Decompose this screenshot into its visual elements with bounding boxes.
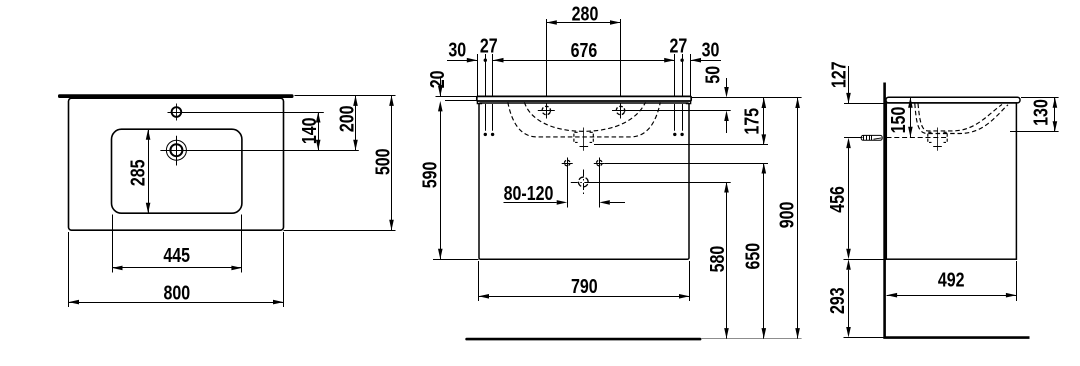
side view: wall and floor line — [885, 83, 1030, 338]
front view: slab edge extension lines (20 dim) — [436, 97, 477, 101]
svg-text:30: 30 — [448, 38, 466, 61]
front view: leader tap hole row to right — [629, 110, 731, 112]
svg-text:27: 27 — [670, 34, 688, 57]
side view: bowl bottom extension line right — [1010, 131, 1059, 133]
front view: hidden bowl inner curve (dashed) — [524, 102, 645, 131]
front view: extension lines below cabinet — [479, 261, 690, 301]
front view: slab right end lip — [686, 101, 691, 104]
top view: extension line from rail top right — [295, 95, 396, 97]
dimension 27 right — [670, 34, 688, 62]
top view: washbasin ceramic outline — [69, 98, 284, 230]
dimension 445 (bowl width) — [112, 243, 242, 270]
side view: washbasin slab profile — [886, 97, 1020, 103]
svg-text:130: 130 — [1029, 99, 1052, 126]
front view: mounting dot extension lines — [486, 104, 683, 131]
dimension 150 (slab to drain line) — [886, 97, 913, 137]
svg-text:500: 500 — [370, 148, 393, 175]
svg-text:285: 285 — [126, 159, 149, 186]
side view: extension line below cabinet front — [1016, 261, 1018, 301]
top view: tap hole with crosshair — [166, 136, 186, 166]
dimension 293 (cabinet bottom to floor) — [825, 259, 851, 337]
svg-text:293: 293 — [825, 287, 848, 314]
dimension 500 (basin depth) — [370, 95, 393, 230]
side view: drain line through wall (dashed) — [887, 137, 949, 139]
top view: extension line from basin bottom right — [284, 230, 396, 232]
front view: washbasin slab — [477, 96, 691, 101]
front view: leader slab top to right — [691, 97, 801, 99]
dimension 130 (slab to bowl bottom) — [1029, 97, 1057, 131]
dimension 800 (basin width) — [69, 280, 284, 304]
side view: hidden bowl inner profile (dashed) — [918, 104, 1002, 131]
svg-text:492: 492 — [938, 267, 965, 290]
front view: right tap hole crosshair — [612, 103, 629, 118]
svg-text:580: 580 — [705, 246, 728, 273]
front view: cabinet outline — [479, 103, 689, 259]
svg-text:445: 445 — [163, 243, 190, 266]
dimension 30 right — [691, 38, 722, 63]
dimension 30 left — [447, 38, 477, 63]
front view: left fixture hole crosshair — [562, 158, 573, 169]
svg-text:150: 150 — [886, 107, 909, 134]
front view: left mounting dots — [484, 133, 495, 136]
front view: slab left end lip — [477, 101, 482, 104]
dimension 676 (hole spacing) — [493, 38, 675, 63]
top view: leader line from tap hole — [160, 150, 358, 152]
front view: leader fixture holes to right — [605, 163, 768, 165]
svg-text:175: 175 — [740, 108, 763, 135]
front view: left tap hole crosshair — [538, 103, 555, 118]
svg-text:20: 20 — [425, 71, 448, 89]
svg-text:590: 590 — [418, 162, 441, 189]
side view: slab top extension line right — [1021, 97, 1059, 99]
side view: floor extension line left — [844, 337, 885, 339]
front view: leader drain hole to right — [590, 182, 731, 184]
svg-text:140: 140 — [297, 117, 320, 144]
side view: hidden drain fitting (dashed) — [928, 128, 947, 151]
svg-text:200: 200 — [334, 105, 357, 132]
dimension 280 (tap hole spacing) — [546, 2, 620, 97]
svg-text:900: 900 — [775, 202, 798, 229]
svg-text:800: 800 — [163, 280, 190, 303]
front view: right mounting dots — [673, 133, 684, 136]
svg-text:650: 650 — [740, 243, 763, 270]
front view: drain hole crosshair — [571, 170, 590, 195]
dimension 27 left — [480, 34, 498, 62]
dimension 900 (slab to floor) — [775, 98, 800, 339]
svg-text:127: 127 — [826, 61, 849, 88]
dimension 140 (overflow to tap hole) — [297, 112, 320, 150]
side view: hidden bowl outer profile (dashed) — [915, 104, 1008, 134]
top view: extension lines below basin — [69, 232, 284, 307]
dimension 175 (slab to drain fitting) — [740, 98, 766, 145]
front view: hidden bowl outer curve (dashed) — [508, 102, 661, 137]
dimension 127 (slab to anchor) — [826, 61, 850, 148]
side view: slab bottom extension line left — [844, 103, 885, 105]
svg-text:50: 50 — [700, 66, 723, 84]
svg-text:80-120: 80-120 — [504, 181, 554, 204]
svg-text:676: 676 — [571, 38, 598, 61]
front view: chain dimension extension lines — [478, 54, 691, 96]
top view: leader line from overflow hole — [181, 112, 324, 114]
top view: extension lines below bowl — [113, 215, 242, 273]
side view: wall anchor symbol — [861, 135, 882, 140]
top view: overflow hole — [168, 104, 186, 121]
dimension 492 (cabinet depth) — [887, 267, 1017, 297]
dimension 580 (drain to floor) — [705, 182, 729, 339]
dimension 590 (slab to cabinet bottom) — [418, 111, 479, 260]
side view: cabinet bottom extension line left — [844, 259, 887, 261]
side view: anchor extension line left — [844, 137, 863, 139]
front view: leader drain fitting to right — [594, 144, 768, 146]
dimension 50 (slab to tap holes) — [700, 66, 728, 133]
front view: floor bar — [465, 338, 701, 341]
svg-text:27: 27 — [480, 34, 498, 57]
svg-text:456: 456 — [825, 186, 848, 213]
dimension 200 (rail to tap hole) — [334, 95, 357, 150]
top view: inner bowl outline — [112, 129, 242, 213]
side view: cabinet profile — [886, 103, 1016, 259]
dimension 456 (anchor to cabinet bottom) — [825, 148, 851, 259]
top view: washbasin back rail bar — [58, 94, 294, 98]
svg-text:280: 280 — [572, 2, 599, 25]
front view: hidden drain fitting (dashed) — [574, 128, 593, 151]
dimension 650 (fixture holes to floor) — [740, 163, 766, 339]
dimension 80-120 (fixture hole range) — [504, 169, 626, 208]
svg-text:790: 790 — [571, 274, 598, 297]
front view: floor reference line — [701, 338, 801, 340]
front view: right fixture hole crosshair — [594, 158, 605, 169]
svg-text:30: 30 — [702, 38, 720, 61]
dimension 285 (bowl length) — [126, 129, 151, 213]
dimension 790 (cabinet width) — [479, 274, 690, 299]
dimension 20 (slab thickness) — [425, 71, 448, 112]
